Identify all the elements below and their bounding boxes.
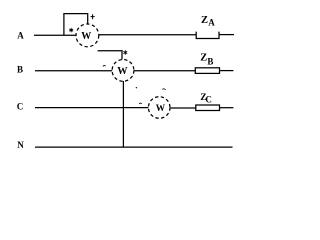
wire: W2 voltage coil to neutral (vertical) [122, 81, 124, 147]
stray mark ~ above W3 [162, 89, 165, 90]
wire: line A right segment (after ZA) [219, 34, 234, 36]
wattmeter W2 (dashed circle) [112, 60, 134, 82]
svg-text:Z: Z [201, 15, 208, 26]
wire: line B middle segment [134, 70, 196, 72]
svg-text:C: C [205, 95, 212, 105]
terminal mark + (W1 voltage coil) [91, 14, 95, 19]
svg-text:B: B [207, 57, 213, 67]
terminal mark * (W1 current coil) [69, 28, 73, 32]
impedance ZB (box) [195, 68, 219, 74]
svg-text:A: A [208, 17, 215, 27]
terminal mark * (W2 voltage coil) [123, 50, 127, 54]
svg-text:W: W [117, 66, 128, 77]
wire: line C middle segment [170, 107, 196, 109]
svg-text:C: C [17, 102, 24, 112]
wire: line B right segment [220, 70, 234, 72]
svg-text:A: A [17, 30, 24, 40]
wire: line A left segment [34, 34, 76, 36]
terminal mark ^ (W2 current coil, degraded) [103, 64, 106, 67]
wire: line A middle segment (after W1 to ZA) [99, 34, 196, 36]
wire: line C left segment [35, 107, 148, 109]
impedance ZC (box) [196, 105, 220, 111]
svg-text:B: B [17, 64, 23, 74]
wire: line B left segment [35, 70, 112, 72]
stray dot left of W3 [136, 87, 137, 88]
svg-text:W: W [81, 31, 91, 42]
wire: line C right segment [220, 107, 234, 109]
svg-text:Z: Z [200, 52, 207, 63]
wattmeter W1 (dashed circle) [76, 24, 99, 47]
wattmeter W1 voltage-coil loop wire [64, 14, 88, 35]
wattmeter W2 voltage-coil wire to top [98, 51, 122, 60]
svg-text:N: N [17, 140, 24, 150]
wire: line N [35, 146, 233, 148]
impedance ZA (open-top box) [196, 32, 219, 39]
svg-text:W: W [156, 104, 166, 114]
wattmeter W3 (dashed circle) [148, 97, 170, 119]
terminal mark ^ (W3 current coil, degraded) [139, 102, 142, 105]
